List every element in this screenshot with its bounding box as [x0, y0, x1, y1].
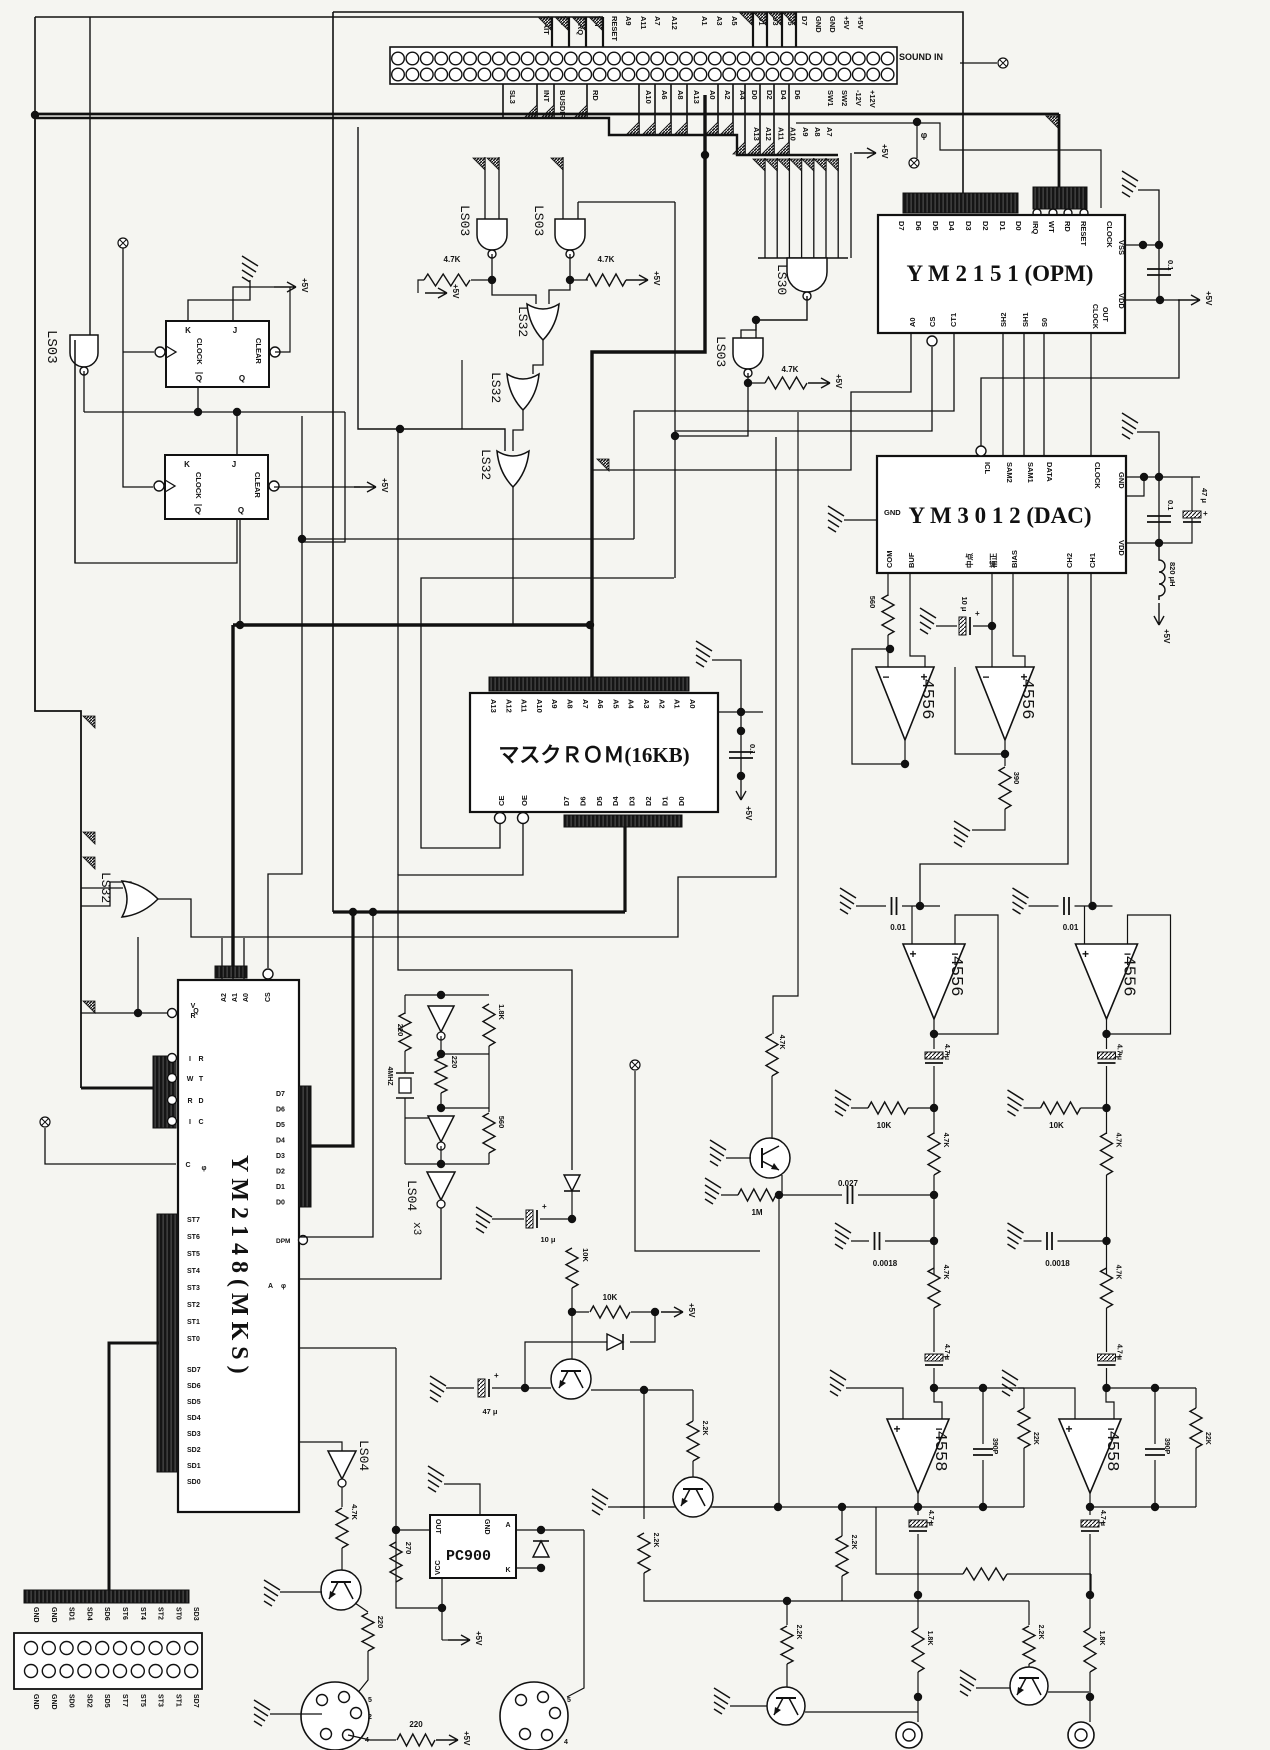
svg-text:INT: INT: [542, 90, 551, 103]
svg-text:4MHZ: 4MHZ: [386, 1066, 393, 1086]
connector pin: [185, 1665, 198, 1678]
wire GND: [444, 1484, 480, 1515]
resistor 4.7K: [766, 1034, 778, 1076]
svg-text:GND: GND: [50, 1694, 57, 1710]
connector pin: [114, 1665, 127, 1678]
junction: [1102, 1384, 1110, 1392]
wire: [461, 360, 463, 429]
op-amp 4558: [887, 1419, 949, 1493]
ground: [1013, 888, 1029, 914]
svg-text:+5V: +5V: [300, 278, 309, 293]
connector pin: [167, 1642, 180, 1655]
junction: [438, 1604, 446, 1612]
svg-text:CLEAR: CLEAR: [254, 338, 263, 364]
junction: [437, 1104, 445, 1112]
svg-text:+5V: +5V: [474, 1631, 483, 1646]
resistor 4.7K: [336, 1508, 348, 1548]
wire LS32 cascade: [533, 340, 543, 374]
connector pin hole: [493, 68, 506, 81]
svg-text:+5V: +5V: [687, 1303, 696, 1318]
connector pin hole: [421, 52, 434, 65]
svg-text:D7: D7: [276, 1091, 285, 1098]
wire: [492, 1218, 524, 1220]
junction: [914, 1693, 922, 1701]
wire output: [1089, 1493, 1091, 1515]
svg-text:5: 5: [368, 1697, 372, 1704]
wire 270 branch: [396, 1348, 442, 1608]
connector pin hole: [723, 52, 736, 65]
junction: [537, 1564, 545, 1572]
junction: [774, 1503, 782, 1511]
capacitor 0.0018: [1047, 1232, 1052, 1250]
+5V supply: [736, 791, 746, 800]
svg-text:ST1: ST1: [174, 1694, 181, 1707]
ground: [1008, 1090, 1024, 1116]
svg-text:4.7K: 4.7K: [778, 1035, 785, 1050]
wire: [441, 1053, 489, 1055]
connector pin: [60, 1642, 73, 1655]
connector pin hole: [406, 52, 419, 65]
svg-text:YM2148(MKS): YM2148(MKS): [226, 1155, 252, 1380]
resistor 22K: [1190, 1408, 1202, 1448]
svg-text:D1: D1: [660, 796, 669, 806]
wire: [786, 1601, 788, 1625]
junction: [537, 1526, 545, 1534]
wire CH1: [1090, 573, 1092, 906]
svg-text:A12: A12: [764, 127, 773, 141]
polarized capacitor 47u: [1183, 509, 1208, 522]
wire to LS03 inputs: [741, 320, 756, 338]
connector pin hole: [478, 52, 491, 65]
svg-text:D2: D2: [765, 90, 774, 100]
svg-text:DATA: DATA: [1045, 462, 1054, 482]
svg-text:SD7: SD7: [187, 1367, 201, 1374]
bus entry mark: [783, 13, 795, 25]
svg-text:SH2: SH2: [999, 312, 1008, 327]
resistor 560: [882, 595, 894, 635]
pin: [168, 1054, 177, 1063]
junction: [1140, 473, 1148, 481]
svg-text:4.7K: 4.7K: [942, 1133, 949, 1148]
svg-text:LS04: LS04: [356, 1440, 371, 1471]
wire: [976, 1687, 1010, 1689]
svg-text:A8: A8: [566, 699, 575, 709]
wire A2 stub: [221, 938, 223, 980]
connector pin hole: [536, 68, 549, 81]
wire gate input: [484, 157, 486, 219]
connector pin: [96, 1642, 109, 1655]
resistor 220: [435, 1057, 447, 1093]
bus entry mark: [590, 18, 602, 30]
svg-text:RESET: RESET: [610, 16, 619, 41]
wire: [933, 1308, 935, 1352]
wire: [488, 1046, 490, 1112]
wire: [571, 1288, 573, 1359]
+5V supply: [1178, 295, 1200, 305]
junction: [1155, 539, 1163, 547]
svg-text:D0: D0: [1014, 221, 1023, 231]
svg-text:A8: A8: [813, 127, 822, 137]
svg-text:CS: CS: [928, 317, 937, 327]
resistor 270: [390, 1542, 402, 1582]
junction: [1151, 1384, 1159, 1392]
wire signal bar: [670, 84, 672, 135]
wire: [841, 1576, 843, 1601]
+5V supply: [661, 1307, 683, 1317]
bus entry mark: [643, 122, 655, 134]
junction: [392, 1526, 400, 1534]
resistor 560: [483, 1113, 495, 1153]
wire: [1195, 1448, 1197, 1507]
OR gate LS32: [122, 881, 158, 917]
wire osc bottom: [405, 1117, 441, 1119]
bus entry mark: [525, 105, 537, 117]
inverter LS04: [427, 1172, 455, 1200]
svg-text:+5V: +5V: [462, 1731, 471, 1746]
wire emitter: [591, 1389, 693, 1391]
connector CN2: [14, 1633, 202, 1689]
connector pin hole: [565, 68, 578, 81]
svg-text:220: 220: [396, 1024, 405, 1037]
inductor 820uH: [1159, 543, 1165, 600]
IC mask ROM: [470, 693, 718, 812]
wire signal bar: [585, 17, 587, 47]
svg-text:Y M 3 0 1 2 (DAC): Y M 3 0 1 2 (DAC): [908, 503, 1091, 528]
wire + input: [1018, 1388, 1075, 1419]
svg-text:A11: A11: [776, 127, 785, 140]
connector pin hole: [665, 52, 678, 65]
wire: [1195, 1388, 1197, 1408]
DIN pin: [343, 1730, 354, 1741]
svg-text:C: C: [198, 1119, 203, 1126]
connection point: [40, 1117, 50, 1127]
wire: [570, 279, 588, 281]
junction: [1102, 1237, 1110, 1245]
svg-text:A9: A9: [550, 699, 559, 709]
wire: [841, 1507, 843, 1536]
wire signal bar: [602, 17, 604, 47]
svg-text:0.0018: 0.0018: [873, 1259, 898, 1268]
wire clock net: [84, 411, 345, 413]
svg-text:A10: A10: [535, 699, 544, 713]
resistor 10K: [590, 1306, 630, 1318]
connector pin: [149, 1665, 162, 1678]
pin DPM: [299, 1236, 308, 1245]
clock input point: [118, 238, 128, 248]
wire thick to YM2148 strip: [81, 1087, 153, 1090]
svg-text:SD1: SD1: [68, 1607, 75, 1621]
svg-text:A6: A6: [660, 90, 669, 100]
junction CS decode: [671, 432, 679, 440]
wire A7: [837, 158, 839, 258]
junction: [916, 902, 924, 910]
NAND gate LS30: [787, 258, 827, 292]
svg-text:+5V: +5V: [380, 478, 389, 493]
svg-text:SW1: SW1: [826, 90, 835, 106]
connector pin: [149, 1642, 162, 1655]
op-amp 4556: [1076, 944, 1138, 1019]
junction: [651, 1308, 659, 1316]
wire output: [1004, 740, 1006, 766]
svg-text:D4: D4: [611, 796, 620, 806]
resistor 220: [397, 1734, 435, 1746]
connector pin: [42, 1642, 55, 1655]
wire VR pin: [81, 1012, 172, 1014]
svg-text:ST6: ST6: [121, 1607, 128, 1620]
junction: [194, 408, 202, 416]
wire to CS net: [302, 412, 345, 542]
bus entry mark: [539, 18, 551, 30]
wire: [1048, 1691, 1089, 1693]
bus entry mark: [627, 122, 639, 134]
svg-text:D3: D3: [964, 221, 973, 231]
resistor: [963, 1568, 1007, 1580]
wire frame to LS32: [358, 127, 505, 451]
bus strip above connector: [24, 1590, 189, 1603]
+5V supply: [854, 148, 876, 158]
wire: [608, 1506, 674, 1508]
wire: [917, 1534, 919, 1628]
svg-text:A1: A1: [700, 16, 709, 26]
connector pin: [25, 1665, 38, 1678]
connector pin: [78, 1642, 91, 1655]
svg-text:4.7 μ: 4.7 μ: [943, 1344, 950, 1360]
pin CLOCK: [155, 347, 165, 357]
svg-text:SL3: SL3: [508, 90, 517, 104]
wire: [270, 1713, 322, 1715]
pin: [168, 1117, 177, 1126]
bus entry mark: [551, 158, 563, 170]
resistor 4.7K: [765, 377, 807, 389]
svg-text:A0: A0: [688, 699, 697, 709]
wire: [936, 625, 957, 627]
svg-text:-12V: -12V: [854, 90, 863, 106]
wire: [1028, 1601, 1030, 1625]
connector pin hole: [521, 52, 534, 65]
svg-text:1M: 1M: [751, 1208, 762, 1217]
junction: [1102, 1030, 1110, 1038]
connector pin hole: [723, 68, 736, 81]
wire: [712, 660, 741, 712]
svg-text:x3: x3: [410, 1222, 422, 1235]
svg-text:220: 220: [409, 1720, 423, 1729]
wire A11: [788, 158, 790, 258]
svg-text:10K: 10K: [603, 1293, 618, 1302]
wire: [404, 1118, 406, 1164]
wire BIAS: [1013, 573, 1025, 667]
connector pin hole: [867, 52, 880, 65]
ground: [835, 1090, 851, 1116]
wire frame vertical: [332, 12, 334, 912]
resistor 22K: [1018, 1408, 1030, 1448]
wire - input: [934, 1388, 942, 1419]
junction ROM bus: [586, 621, 594, 629]
connector pin: [96, 1665, 109, 1678]
connector pin hole: [680, 68, 693, 81]
wire +12V bus drop: [1058, 114, 1061, 190]
connector pin hole: [622, 52, 635, 65]
junction: [979, 1503, 987, 1511]
wire VSS ground: [1138, 190, 1159, 300]
svg-text:LS03: LS03: [457, 205, 472, 236]
svg-text:SH1: SH1: [1021, 312, 1030, 327]
connector pin hole: [737, 52, 750, 65]
wire signal bar: [732, 84, 734, 135]
svg-text:4556: 4556: [917, 679, 936, 720]
svg-text:A3: A3: [642, 699, 651, 709]
output jack: [1068, 1722, 1094, 1748]
wire: [856, 905, 886, 907]
bus entry mark: [748, 142, 760, 154]
svg-text:SD4: SD4: [85, 1607, 92, 1621]
connector pin hole: [809, 52, 822, 65]
overline: [194, 504, 202, 506]
+5V supply: [425, 288, 447, 298]
svg-text:A13: A13: [752, 127, 761, 141]
bus entry mark: [542, 105, 554, 117]
connector pin hole: [781, 52, 794, 65]
wire RxD: [299, 1347, 396, 1349]
wire: [540, 1218, 572, 1220]
DIN pin: [317, 1695, 328, 1706]
wire: [341, 1487, 343, 1507]
wire signal bar: [752, 12, 754, 47]
IC YM2148: [178, 980, 299, 1512]
svg-text:ST5: ST5: [187, 1251, 200, 1258]
svg-text:A7: A7: [825, 127, 834, 137]
bus entry mark: [575, 105, 587, 117]
svg-text:10 μ: 10 μ: [540, 1235, 555, 1244]
connector pin hole: [406, 68, 419, 81]
bus entry mark: [659, 122, 671, 134]
+5V supply: [448, 1635, 470, 1645]
svg-text:4: 4: [365, 1737, 369, 1744]
wire: [982, 1388, 984, 1444]
svg-text:D2: D2: [276, 1169, 285, 1176]
bus entry mark: [733, 142, 745, 154]
transistor: [750, 1138, 790, 1178]
connector pin hole: [521, 68, 534, 81]
wire: [876, 1507, 963, 1574]
svg-text:ST4: ST4: [187, 1268, 200, 1275]
wire: [851, 1240, 869, 1242]
DIN connector MIDI: [301, 1682, 369, 1750]
wire to YM2151 CS: [675, 347, 932, 431]
junction: [914, 1591, 922, 1599]
pin OE: [518, 813, 529, 824]
wire: [887, 635, 889, 667]
polarized capacitor 10u: [526, 1202, 547, 1228]
connector pin hole: [737, 68, 750, 81]
svg-text:+5V: +5V: [842, 16, 851, 30]
wire phi net right: [917, 123, 1101, 208]
connector pin hole: [435, 52, 448, 65]
svg-text:10K: 10K: [581, 1248, 590, 1262]
ground: [705, 1178, 721, 1204]
svg-text:4.7K: 4.7K: [350, 1504, 359, 1520]
svg-text:I: I: [189, 1119, 191, 1126]
wire top frame: [333, 12, 963, 193]
svg-text:OUT: OUT: [1101, 307, 1108, 323]
svg-text:DPM: DPM: [276, 1238, 290, 1245]
junction: [886, 645, 894, 653]
connector pin: [131, 1642, 144, 1655]
connector pin hole: [608, 52, 621, 65]
wire: [730, 1705, 767, 1707]
resistor 4.7K: [928, 1268, 940, 1308]
wire: [630, 1312, 655, 1342]
wire from LS32: [137, 937, 139, 1013]
polarized capacitor 4.7u: [1098, 1352, 1123, 1365]
svg-text:CLOCK: CLOCK: [195, 338, 204, 365]
wire signal bar: [759, 84, 761, 155]
svg-text:ST7: ST7: [187, 1217, 200, 1224]
svg-text:A0: A0: [243, 993, 250, 1002]
svg-text:OUT: OUT: [434, 1519, 441, 1535]
svg-text:WT: WT: [1047, 221, 1056, 233]
wire LS32 cascade: [513, 410, 523, 451]
svg-text:D7: D7: [562, 796, 571, 806]
polarized capacitor 4.7u: [909, 1518, 934, 1531]
wire signal bar: [717, 84, 719, 135]
pin: [168, 1074, 177, 1083]
junction: [838, 1503, 846, 1511]
OR gate LS32: [497, 451, 529, 487]
pin CLEAR: [270, 347, 280, 357]
transistor: [551, 1359, 591, 1399]
wire Q2 feedback: [75, 340, 237, 563]
svg-text:+: +: [975, 609, 980, 618]
svg-text:LS32: LS32: [478, 449, 493, 480]
resistor 1M: [738, 1189, 776, 1201]
wire J pullup: [233, 287, 274, 321]
svg-text:0.01: 0.01: [890, 923, 906, 932]
svg-text:IRQ: IRQ: [1031, 221, 1040, 235]
svg-text:SOUND IN: SOUND IN: [899, 52, 943, 62]
ground: [242, 256, 258, 282]
wire S0-DATA: [1043, 333, 1045, 456]
svg-text:CT1: CT1: [949, 313, 958, 327]
svg-text:560: 560: [497, 1116, 506, 1129]
bus strip above YM2151 right: [1033, 187, 1087, 209]
NAND gate LS03: [733, 338, 763, 369]
wire DPM: [299, 912, 373, 1237]
svg-text:ST0: ST0: [174, 1607, 181, 1620]
svg-text:4.7 μ: 4.7 μ: [1116, 1344, 1123, 1360]
svg-text:+5V: +5V: [880, 144, 889, 159]
wire: [851, 1107, 868, 1109]
connector pin hole: [694, 52, 707, 65]
resistor 2.2K: [1023, 1626, 1035, 1664]
svg-text:ICL: ICL: [983, 462, 992, 475]
svg-text:4.7 μ: 4.7 μ: [1099, 1510, 1106, 1526]
wire decoupling: [1158, 477, 1160, 543]
wire A0: [592, 333, 911, 470]
wire: [933, 1066, 935, 1134]
svg-text:4.7K: 4.7K: [782, 365, 799, 374]
junction: [1001, 750, 1009, 758]
connector pin hole: [593, 52, 606, 65]
svg-text:+5V: +5V: [451, 284, 460, 299]
resistor 1.8K: [912, 1628, 924, 1672]
wire gate input: [577, 202, 579, 219]
IC YM2151: [878, 215, 1125, 333]
svg-text:0.027: 0.027: [838, 1179, 859, 1188]
junction: [437, 1050, 445, 1058]
DIN pin: [351, 1708, 362, 1719]
wire signal bar: [654, 84, 656, 135]
svg-text:+5V: +5V: [834, 374, 843, 389]
